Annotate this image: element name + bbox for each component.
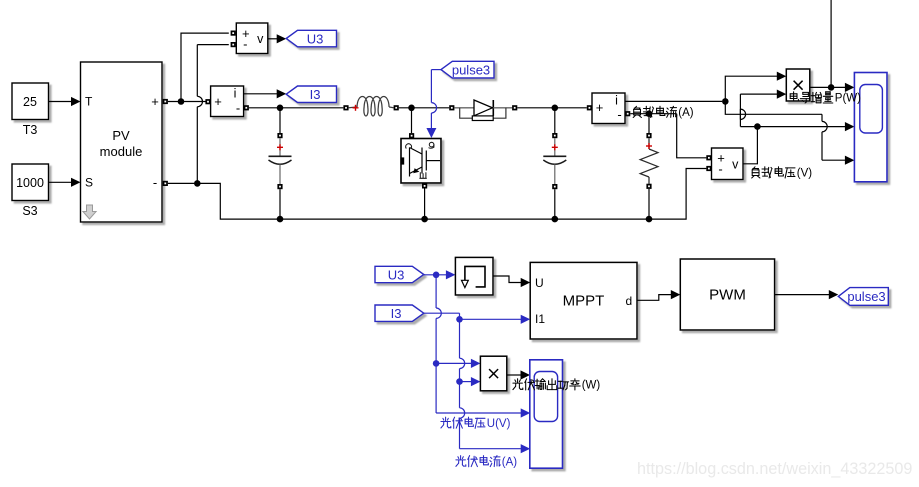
wire PWM to pulse3 goto — [775, 294, 829, 296]
v1 + input port — [231, 31, 236, 36]
label load voltage V — [752, 167, 795, 178]
scope block PV measurements — [530, 360, 563, 468]
i2 + input port — [587, 105, 592, 110]
label PV current A — [456, 456, 500, 467]
capacitor C1 — [269, 138, 292, 184]
inductor left port — [343, 105, 348, 110]
svg-text:S: S — [85, 176, 93, 190]
wire PV+ to current sensor i1 — [168, 101, 206, 103]
svg-text:PV: PV — [112, 128, 130, 143]
label load current A — [633, 106, 677, 117]
wire I3 net down (hops) — [459, 319, 461, 358]
wire T3 to PV T input — [49, 101, 73, 103]
svg-text:(A): (A) — [678, 107, 694, 119]
PV - terminal port — [163, 181, 168, 186]
resistor R load — [640, 138, 658, 184]
diode right port — [512, 105, 517, 110]
i1 + input port — [205, 99, 210, 104]
i1 - output port — [244, 105, 249, 110]
label conductance increment P W — [790, 92, 833, 103]
PV + terminal port — [163, 99, 168, 104]
v2 + input port — [706, 155, 711, 160]
wire current signal to multiply in1 — [725, 76, 777, 101]
svg-text:+: + — [596, 100, 604, 115]
v2 - input port — [706, 166, 711, 171]
wire to multiply2 in2 — [460, 381, 472, 383]
svg-text:U(V): U(V) — [487, 418, 511, 430]
inductor L — [349, 97, 394, 117]
from tag U3 bottom — [375, 266, 424, 282]
wire i2 signal to multiply — [625, 100, 722, 102]
MPPT controller block — [530, 262, 637, 339]
constant block S3 value 1000 — [12, 164, 49, 201]
node C2 top junction — [552, 105, 559, 112]
current measurement i1 — [211, 86, 244, 117]
node IGBT rail junction — [421, 216, 428, 223]
IGBT pin letters C g E (rotated) — [406, 142, 434, 178]
svg-text:P(W): P(W) — [835, 93, 861, 105]
svg-text:-: - — [236, 101, 240, 116]
svg-text:-: - — [153, 175, 157, 190]
svg-text:d: d — [626, 294, 633, 308]
PWM generator block — [680, 259, 774, 330]
wire U3 to memory — [424, 274, 447, 276]
pulse3 gate wire vertical (hop) — [430, 70, 432, 103]
PV module block — [81, 62, 163, 222]
C1 bottom port — [277, 184, 282, 189]
svg-text:T: T — [85, 95, 93, 109]
wire diode to current sensor i2 — [517, 107, 587, 109]
svg-text:i: i — [234, 87, 237, 101]
goto tag U3 — [286, 30, 336, 47]
wire memory to MPPT U — [493, 276, 521, 283]
wire I3 to MPPT I1 — [460, 313, 522, 319]
node resistor rail junction — [646, 216, 653, 223]
svg-text:v: v — [732, 158, 739, 172]
voltage measurement v1 — [236, 23, 267, 54]
wire multiply2 to scope2 in1 — [507, 374, 521, 376]
svg-text:1000: 1000 — [16, 176, 44, 190]
wire v1 output to U3 goto — [268, 38, 277, 40]
svg-text:-: - — [243, 37, 247, 52]
node PV+ junction — [178, 98, 185, 105]
svg-text:+: + — [214, 94, 222, 109]
wire voltage signal to multiply in2 — [740, 93, 777, 95]
wire down to capacitor C1 — [279, 108, 281, 133]
wire current signal right — [725, 101, 822, 114]
label PV voltage U V — [441, 417, 485, 428]
wire I3 net to scope2 in3 — [460, 448, 522, 450]
svg-text:i: i — [615, 94, 618, 108]
wire current signal to scope in3 — [822, 159, 845, 161]
wire down to load resistor — [648, 114, 650, 133]
svg-text:PWM: PWM — [709, 287, 746, 304]
load resistor top port — [646, 133, 651, 138]
wire inductor to diode — [399, 107, 449, 109]
gate arrow into IGBT — [426, 128, 436, 138]
C1 top port — [277, 133, 282, 138]
wire down to IGBT — [411, 108, 413, 133]
wire i1 - to inductor L — [249, 107, 344, 109]
node I3 to multiply junction — [456, 378, 463, 385]
voltage measurement v2 load voltage — [712, 148, 744, 180]
wire S3 to PV S input — [49, 181, 73, 183]
from tag I3 bottom — [375, 305, 424, 321]
svg-text:I3: I3 — [310, 87, 321, 102]
node U3 branch — [433, 272, 440, 279]
multiply block product P — [786, 69, 810, 101]
IGBT emitter port — [422, 183, 427, 188]
node load junction — [646, 110, 653, 117]
wire I3 right — [424, 312, 460, 314]
IGBT symbol — [401, 148, 440, 177]
wire v2 output up — [743, 127, 757, 164]
svg-text:pulse3: pulse3 — [847, 289, 885, 304]
diode D — [454, 100, 512, 121]
diode left port — [449, 105, 454, 110]
load resistor bottom port — [646, 184, 651, 189]
memory block — [455, 257, 493, 295]
goto tag I3 — [286, 86, 336, 103]
wire voltage signal to scope in2 — [757, 126, 845, 128]
v1 - input port — [231, 42, 236, 47]
wire PV+ up to voltmeter v1 + input — [181, 33, 229, 101]
wire from top edge down — [830, 0, 832, 87]
wire down to capacitor C2 — [554, 108, 556, 133]
memory icon — [462, 266, 486, 287]
wire to v1 - input — [197, 44, 229, 46]
node U3 to multiply junction — [433, 360, 440, 367]
svg-text:-: - — [718, 162, 722, 177]
C2 top port — [552, 133, 557, 138]
svg-text:(W): (W) — [582, 380, 601, 392]
C2 bottom port — [552, 184, 557, 189]
wire voltmeter v1 - down to PV- node (hop) — [196, 45, 198, 97]
wire i2 - to load node — [630, 113, 676, 115]
svg-text:pulse3: pulse3 — [452, 62, 490, 77]
node current signal junction — [722, 98, 729, 105]
i2 - output port — [625, 111, 630, 116]
node C1 rail junction — [277, 216, 284, 223]
svg-text:v: v — [257, 32, 264, 46]
wire MPPT d to PWM — [637, 295, 671, 301]
svg-text:(V): (V) — [797, 168, 813, 180]
svg-text:MPPT: MPPT — [563, 293, 605, 310]
scope block (load measurements) — [854, 73, 887, 182]
wire i1 signal to I3 goto — [244, 93, 278, 95]
svg-text:(A): (A) — [502, 457, 518, 469]
svg-text:S3: S3 — [22, 204, 37, 218]
from tag pulse3 — [441, 61, 494, 78]
wire U3 net down (hop at I3 wire) — [435, 275, 437, 308]
node PV- junction — [194, 180, 201, 187]
capacitor C2 — [543, 138, 566, 184]
wire PV- to ground rail and to v2 - — [168, 169, 707, 220]
goto tag pulse3 bottom — [838, 288, 888, 306]
constant block T3 value 25 — [12, 83, 49, 120]
wire U3 net to scope2 in2 — [436, 412, 521, 414]
wire voltage signal up to multiply (hop) — [739, 109, 741, 127]
wire IGBT emitter to rail — [424, 189, 426, 220]
label PV output power W — [513, 379, 580, 390]
svg-text:I3: I3 — [391, 306, 402, 321]
svg-text:U3: U3 — [388, 267, 405, 282]
wire C2 bottom to rail — [554, 189, 556, 219]
wire current signal down to scope in3 (hop) — [821, 114, 823, 121]
svg-text:T3: T3 — [23, 123, 38, 137]
svg-text:-: - — [617, 107, 621, 122]
svg-text:U3: U3 — [307, 31, 324, 46]
svg-text:+: + — [151, 94, 159, 109]
node I3 branch — [456, 316, 463, 323]
node top wire junction — [828, 84, 835, 91]
IGBT collector port — [409, 133, 414, 138]
wire load node to v2 + — [677, 114, 707, 158]
current measurement i2 load current — [592, 93, 625, 124]
svg-text:I1: I1 — [535, 312, 545, 326]
inductor right port — [394, 105, 399, 110]
svg-text:module: module — [100, 144, 143, 159]
wire C1 bottom to rail — [279, 189, 281, 219]
wire pulse3 to IGBT gate — [431, 69, 441, 71]
svg-text:https://blog.csdn.net/weixin_4: https://blog.csdn.net/weixin_43322509 — [637, 460, 912, 478]
wire resistor bottom to rail — [648, 189, 650, 219]
PV module down-arrow icon — [83, 205, 96, 219]
IGBT switch block — [401, 139, 441, 184]
svg-text:U: U — [535, 276, 544, 290]
node C1 top junction — [277, 105, 284, 112]
svg-text:25: 25 — [23, 95, 37, 109]
multiply block PV power — [480, 356, 506, 391]
wire voltage signal left — [740, 126, 757, 128]
wire to multiply2 in1 — [436, 362, 471, 364]
node voltage signal junction — [754, 123, 761, 130]
node C2 rail junction — [552, 216, 559, 223]
wire product to scope in1 — [810, 86, 845, 88]
node IGBT collector junction — [408, 105, 415, 112]
